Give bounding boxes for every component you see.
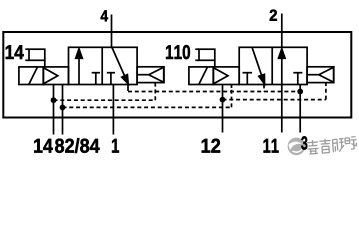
port 11 label <box>264 139 279 153</box>
V1 right square blocked port <box>107 73 115 85</box>
wire exhaust V2 drop (dashed) <box>263 85 265 92</box>
port 14 label <box>34 139 53 153</box>
wire exhaust channel to port 3 (dashed) <box>128 91 300 93</box>
V2 left square blocked port <box>243 73 253 85</box>
wire operator V1 stub <box>154 83 156 86</box>
V2 left square exhaust arrow <box>252 48 264 84</box>
node 3 junction <box>297 89 303 95</box>
V1 right square exhaust arrow <box>112 48 128 84</box>
solenoid coil box V2 <box>189 67 213 85</box>
valve body V2 <box>239 47 307 84</box>
pneumatic return operator V2 <box>307 67 334 83</box>
wire operator V2 stub <box>325 83 327 86</box>
valve body V1 <box>69 47 138 84</box>
V2 right square flow arrow <box>279 49 286 85</box>
wire pilot 12 to operator V2 (dashed) <box>223 86 326 100</box>
pilot amplifier V1 <box>43 67 68 85</box>
node 82/84 junction <box>60 105 66 111</box>
V1 left square blocked port <box>92 73 100 85</box>
pilot supply line 11 <box>281 85 283 133</box>
port 12 label <box>202 139 220 153</box>
pilot line 14 <box>53 85 55 135</box>
port 4 line <box>111 15 113 48</box>
pilot exhaust line 82/84 <box>62 85 64 135</box>
supply line 1 <box>112 85 114 135</box>
watermark logo <box>288 138 306 156</box>
manual override V1 <box>25 49 45 67</box>
port 3 label <box>301 136 307 149</box>
solenoid coil box V1 <box>19 67 43 85</box>
port 82/84 label <box>55 138 99 153</box>
exhaust line 3 <box>299 85 301 133</box>
V1 left square flow arrow <box>76 49 83 85</box>
node 14 junction <box>51 97 57 103</box>
node 12 junction <box>220 97 226 103</box>
label 14 (solenoid coil V1) <box>6 45 24 59</box>
manual override V2 <box>195 49 215 67</box>
wire 82/84 to pilot exhaust V2 (dashed) <box>63 88 232 108</box>
pilot amplifier V2 <box>213 67 239 85</box>
enclosure border <box>3 32 351 118</box>
port 4 label <box>101 10 108 21</box>
pilot line 12 <box>222 85 224 133</box>
port 2 line <box>281 14 283 48</box>
wire exhaust V1 stub <box>127 85 129 89</box>
port 1 label <box>112 139 119 153</box>
V2 right square blocked port <box>293 73 302 85</box>
watermark text <box>307 137 357 154</box>
wire exhaust V1 drop (dashed) <box>127 88 129 92</box>
port 2 label <box>270 10 277 21</box>
wire pilot 14 to operator V1 (dashed) <box>54 86 156 101</box>
wire pilot exhaust V2 stub <box>231 85 233 89</box>
pneumatic return operator V1 <box>137 67 164 83</box>
label 110 (solenoid coil V2) <box>166 45 190 59</box>
